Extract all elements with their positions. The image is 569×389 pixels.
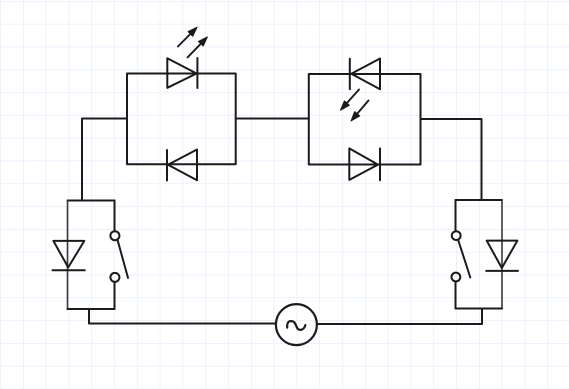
wire right branch bottom edge [456, 308, 503, 310]
switch S2 lever [458, 240, 470, 278]
wire left branch right edge lower [114, 282, 116, 309]
diode D6 cathode bar [486, 270, 518, 272]
LED D1 triangle [167, 58, 196, 88]
switch S2 top contact [452, 231, 461, 240]
diode D2 cathode bar [166, 150, 168, 181]
diode D4 cathode bar [379, 148, 381, 180]
wire left branch left edge [67, 201, 69, 310]
switch S1 top contact [110, 231, 119, 240]
diode D2 triangle [168, 150, 197, 181]
photodiode D3 incident arrow 1 [341, 90, 360, 111]
wire right branch right edge [501, 200, 503, 309]
wire right branch left edge upper [455, 200, 457, 231]
wire right branch left edge lower [455, 282, 457, 309]
node: top-right loop (parallel diode/photodiode) [309, 74, 421, 165]
switch S1 bottom contact [110, 273, 119, 282]
wire from left branch to AC source [89, 309, 276, 324]
wire left branch right edge upper [114, 201, 116, 232]
LED D1 emission arrow 2 [188, 37, 208, 58]
switch S2 bottom contact [452, 273, 461, 282]
wire from top-right loop to right branch [421, 119, 482, 200]
diode D5 triangle [53, 241, 84, 268]
photodiode D3 triangle [351, 59, 380, 90]
diode D5 cathode bar [53, 269, 85, 271]
photodiode D3 incident arrow 2 [351, 101, 369, 122]
wire from AC source to right branch [317, 309, 482, 325]
node: right branch box [456, 199, 503, 201]
AC source V1 circle [276, 304, 317, 345]
LED D1 emission arrow 1 [178, 27, 197, 46]
wire from top-left loop to left branch [82, 119, 127, 201]
node: left branch box [68, 200, 115, 202]
node: top-left loop (parallel LED/diode) [127, 74, 236, 165]
switch S1 lever [118, 240, 129, 278]
LED D1 cathode bar [196, 58, 198, 88]
wire left branch bottom edge [68, 308, 115, 310]
wire between top loops [236, 118, 309, 120]
diode D6 triangle [487, 241, 518, 268]
AC source V1 sine symbol [287, 321, 305, 330]
diode D4 triangle [349, 148, 378, 180]
photodiode D3 cathode bar [349, 59, 351, 90]
